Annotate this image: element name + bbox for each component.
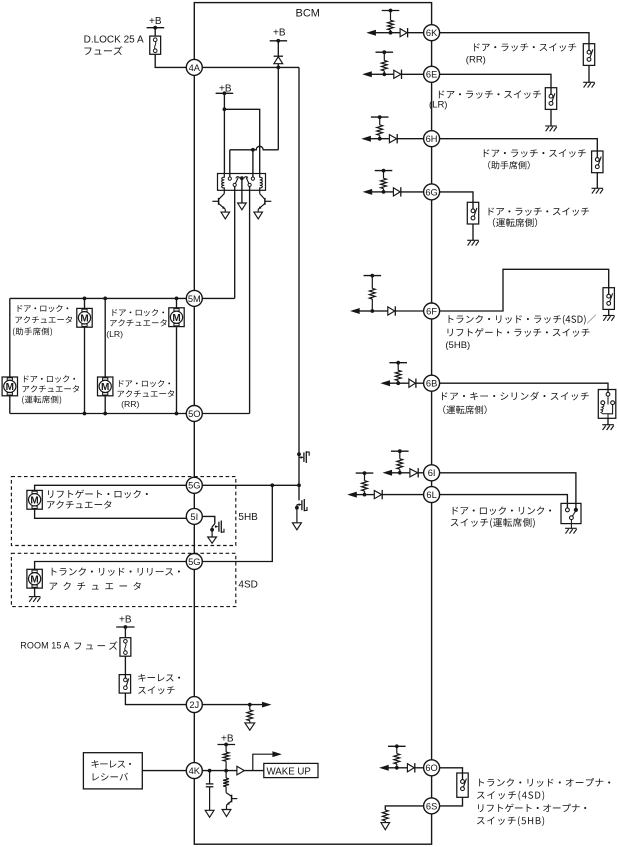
pull-up T-bar for 6F [364,275,382,277]
wire node 2J to logic [202,704,264,706]
wire diode to node 6L [382,494,424,496]
relay contact NO pin right [251,177,254,180]
label latch switch LR [439,90,541,98]
signal arrow 6B [380,380,390,386]
pull-up T-bar for 6E [376,51,394,53]
junction coil branch [223,107,227,111]
MOSFET low-side driver [295,485,307,523]
wire branch to right relay coil [224,109,259,173]
relay coil R (unlock) [260,174,263,191]
wire actuator column x=105.2 [104,298,106,377]
pulldown resistor 6S [382,810,388,821]
svg-text:5I: 5I [190,512,198,522]
wire 4A line down right side of relay (to lock output driver) [298,67,300,453]
wire +B to fuse [154,28,156,36]
wire 6G junction to diode [384,191,394,193]
wire latch to ground [608,309,610,315]
wire relay common L to node 5M [234,187,236,299]
wire 6K junction to diode [391,32,401,34]
svg-text:5HB: 5HB [238,512,258,523]
diode 6G [393,188,400,196]
switch door latch LR [545,88,556,110]
wire diode to 4A line [277,64,279,68]
chassis ground latch RR [583,82,595,87]
svg-text:6O: 6O [425,763,437,773]
pull-up resistor for 6B [397,363,399,371]
pull-up resistor for 6F [371,276,373,289]
pull-up resistor for 6L [364,473,366,481]
ground arrow 5I driver [208,537,217,543]
signal arrow 6G [363,189,373,195]
wire keyless switch to node 2J [125,693,186,705]
pull-up resistor for 6G [383,171,385,179]
node 6I [424,465,440,481]
series resistor to clamp transistor [225,771,227,779]
wire latch switch LR to ground [550,109,552,125]
fuse D.LOCK 25 A [150,36,161,54]
wire trunk release actuator to node 5G [35,562,187,570]
wire liftgate actuator to node 5G [35,485,187,490]
wire actuator bus lower (5O) [10,413,186,415]
node 6L [424,487,440,503]
wire diode to node 6G [401,191,424,193]
svg-text:(5HB): (5HB) [445,340,470,351]
motor door lock actuator (RR) [98,377,113,396]
wire key cylinder to ground [607,418,609,424]
transistor Q3 (keyless input clamp) [226,787,237,810]
wire +B to diode [277,41,279,56]
wire liftgate actuator to node 5I [35,509,187,518]
svg-text:6K: 6K [426,28,438,38]
ground arrow Q2 emitter [254,212,263,219]
relay block (lock/unlock relays) [218,174,266,191]
svg-text:5G: 5G [188,557,200,567]
svg-text:6F: 6F [426,306,437,316]
ground arrow Q3 [222,810,231,817]
svg-text:6B: 6B [426,379,437,389]
relay blade left [235,178,238,184]
svg-text:M: M [172,313,180,324]
pull-up T-bar for 6O [388,745,406,747]
motor door lock actuator (driver) [2,377,17,396]
svg-text:M: M [6,382,14,393]
transistor Q2 (unlock coil driver) [258,190,271,212]
wire 6O junction to diode [397,767,408,769]
label lock link switch [453,506,551,514]
wire driver output to node 5G [298,453,300,485]
wire diode to node 6I [418,472,424,474]
svg-text:M: M [80,313,88,324]
ground arrow capacitor [205,810,214,817]
svg-text:M: M [30,574,38,585]
signal arrow 6I [383,470,393,476]
svg-text:6G: 6G [425,187,437,197]
BCM enclosure box [194,3,431,845]
wire node 5G to driver output [202,484,299,486]
transistor Q1 (lock coil driver) [212,190,225,212]
chassis ground latch front passenger [592,188,604,193]
junction 6E [382,72,386,76]
node 5G [186,477,202,493]
svg-text:4K: 4K [189,766,201,776]
junction 6I [398,471,402,475]
node 6E [424,66,440,82]
pulldown resistor 2J [247,710,253,721]
wire actuator column x=176.5 [176,298,178,308]
+B contact rail from 4A [277,67,279,149]
pull-up T-bar for 6I [391,450,409,452]
svg-text:M: M [30,495,38,506]
svg-text:WAKE UP: WAKE UP [267,767,311,778]
node 5O [186,406,202,422]
ground arrow 6S [381,823,390,830]
keyless switch [119,675,130,694]
pull-up T-bar for 6G [375,170,393,172]
WAKE UP box [264,763,318,777]
junction diode tap [276,66,280,70]
pull-up T-bar for 6B [389,362,407,364]
svg-text:M: M [101,382,109,393]
relay contact NO pin left [228,177,231,180]
pull-up resistor for 6K [390,11,392,21]
wire node 6I to lock link switch [440,473,576,508]
junction rail to NO contact right [251,148,255,152]
pull-up resistor for 6O [396,746,398,753]
wire actuator column x=9.8 [9,298,11,377]
wire relay common R to node 5O [249,187,251,414]
signal direction arrow WAKE UP [253,754,274,770]
wire node 4K to buffer [202,770,237,772]
svg-text:6E: 6E [426,70,437,80]
wire 6E junction to diode [384,73,394,75]
wire latch switch driver to ground [472,224,474,240]
wire node 6K to latch switch RR [440,33,589,44]
pull-up resistor for 6I [399,451,401,459]
ground arrow low-side driver [292,523,301,530]
svg-text:5M: 5M [188,294,201,304]
diode 6E [394,70,401,78]
node 2J [186,697,202,713]
wire buffer to WAKE UP [244,770,263,772]
switch trunk/liftgate latch [603,288,614,310]
MOSFET high-side driver [297,451,309,463]
junction 6O [395,766,399,770]
wire trunk release actuator to ground [34,588,36,596]
wire +B to ROOM fuse [124,627,126,638]
signal arrow 6O [379,765,389,771]
wire opener switch to node 6S [440,797,463,806]
node 5G [186,554,202,570]
wire node 6F to trunk/liftgate latch switch [440,269,609,311]
chassis ground trunk latch [603,316,615,321]
wire diode to node 6F [395,310,424,312]
label opener switch [479,778,610,787]
svg-text:(LR): (LR) [106,329,123,339]
wire diode to node 6O [415,767,424,769]
wire branch to node 5G (4SD) [202,485,272,561]
motor door lock actuator (LR) [169,308,184,327]
wire diode to node 6H [397,138,424,140]
keyless receiver box [83,753,142,789]
wire node 6B to key cylinder switch [440,383,608,389]
node 6O [424,760,440,776]
junction 2J pulldown [248,703,252,707]
switch trunk/liftgate opener [457,773,468,797]
wire node 6H to latch switch front passenger [440,139,597,151]
switch door lock link [561,503,581,528]
svg-text:+B: +B [149,16,162,27]
svg-text:+B: +B [119,615,132,626]
junction 6L [363,493,367,497]
diode 6L [374,491,381,499]
switch door key cylinder [598,390,616,419]
svg-text:(RR): (RR) [121,399,139,409]
node 4A [186,59,202,75]
chassis ground latch driver [467,240,479,245]
junction 6F [370,309,374,313]
wire rail to NO contact left [229,150,231,177]
wire fuse to node 4A [155,54,186,67]
svg-text:BCM: BCM [296,8,320,20]
svg-text:+B: +B [273,28,286,39]
wire node 5O to relay [202,413,249,415]
chassis ground key cylinder [602,425,614,430]
node 4K [186,763,202,779]
motor door lock actuator (front passenger) [77,308,92,327]
switch door latch front passenger [592,151,603,173]
relay common pin right [248,183,251,186]
motor liftgate lock actuator [27,490,42,509]
junction 6B [396,381,400,385]
node 6S [424,798,440,814]
dashed harness box 4SD [11,553,235,606]
junction 6H [378,137,382,141]
node 5I [186,508,202,524]
wire actuator bus upper (5M) [10,297,186,299]
relay common pin left [233,183,236,186]
pull-up T-bar for 6H [371,116,389,118]
wire node 6E to latch switch LR [440,74,551,87]
chassis ground latch LR [545,126,557,131]
pull-up resistor 4K [225,745,227,753]
signal arrow 6F [350,308,360,314]
wire actuator column x=84.5 [84,298,86,308]
label latch switch driver [489,207,590,215]
svg-text:D.LOCK 25 A: D.LOCK 25 A [84,35,144,46]
label key cylinder switch [442,392,589,401]
wire 6L junction to diode [365,494,375,496]
svg-text:(LR): (LR) [429,100,447,111]
wire node 6S to pulldown [385,806,424,810]
label latch switch front passenger [484,149,586,157]
switch door latch RR [583,44,594,66]
wire node 5M to relay [202,297,234,299]
ground arrow 2J [245,723,255,730]
svg-text:6I: 6I [428,468,436,478]
junction filter capacitor [208,769,212,773]
ground arrow relay centre [238,203,247,210]
svg-text:6H: 6H [426,134,438,144]
svg-text:2J: 2J [189,700,199,710]
clamp diode (cathode up) [274,55,283,57]
relay blade right [246,178,249,184]
svg-text:ROOM 15 A: ROOM 15 A [20,641,69,651]
diode 6H [389,135,396,143]
signal arrow 6L [347,492,357,498]
node 6F [424,303,440,319]
wire latch switch to ground [596,173,598,188]
svg-text:5O: 5O [188,409,200,419]
pull-up T-bar for 6L [356,472,374,474]
wire latch switch RR to ground [588,65,590,82]
wire 6I junction to diode [400,472,410,474]
wire 6B junction to diode [398,382,409,384]
svg-text:6L: 6L [426,490,436,500]
wire node 6G to latch switch driver [440,192,473,202]
diode 6O [407,764,414,772]
diode 6I [410,469,418,477]
wire fuse to keyless switch [124,656,126,674]
capacitor C1 [209,771,211,784]
switch door latch driver [467,202,478,224]
wire node 6O to opener switch [440,768,463,773]
fuse ROOM 15 A [120,638,131,657]
signal arrow 6H [361,136,371,142]
label latch switch RR [474,43,576,51]
wire node 6L to lock link switch [440,495,568,508]
signal arrow 6K [366,30,376,36]
junction 6K [389,31,393,35]
ground arrow Q1 emitter [221,212,230,219]
relay centre ground wire [241,178,243,203]
dashed harness box 5HB [11,477,235,546]
signal arrow 2J [262,702,272,708]
wire node 4A to internal +B net [202,66,299,68]
motor trunk lid release actuator [27,569,42,588]
node 6K [424,25,440,41]
pull-up T-bar for 6K [382,10,400,12]
diode 6F [388,307,395,315]
label trunk/liftgate latch switch [449,315,596,325]
svg-text:+B: +B [221,734,234,745]
wire diode to node 6E [402,73,424,75]
svg-text:4SD: 4SD [238,580,257,591]
wire 6H junction to diode [380,138,390,140]
wire diode to node 6B [416,382,424,384]
wire +B to left relay coil [223,93,225,173]
svg-text:(RR): (RR) [466,55,486,66]
junction trunk branch [270,483,274,487]
buffer U1 [237,766,244,775]
chassis ground lock link switch [565,528,577,533]
svg-text:4A: 4A [189,63,201,73]
svg-text:5G: 5G [188,481,200,491]
wire 6F junction to diode [372,310,388,312]
node 6H [424,131,440,147]
diode 6B [409,379,415,387]
wire receiver to node 4K [142,770,186,772]
junction pull-up 4K [224,769,228,773]
svg-text:6S: 6S [426,801,437,811]
node 5I sink driver [202,516,224,537]
junction 6G [382,190,386,194]
junctions on buses [83,297,87,301]
wire diode to node 6K [408,32,424,34]
node 6B [424,375,440,391]
diode 6K [400,29,407,37]
relay NC contacts and common ground dot [236,177,240,179]
pull-up resistor for 6H [379,117,381,125]
chassis ground trunk release actuator [29,597,41,602]
node 6G [424,184,440,200]
relay coil L (lock) [222,174,225,191]
pull-up resistor for 6E [383,52,385,60]
node 5M [186,290,202,306]
signal arrow 6E [362,71,372,77]
